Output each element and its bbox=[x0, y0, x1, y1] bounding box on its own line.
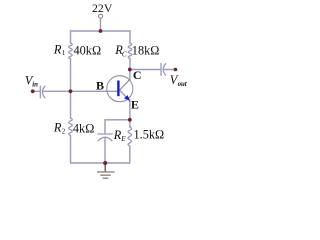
svg-text:18kΩ: 18kΩ bbox=[132, 43, 160, 57]
svg-text:E: E bbox=[131, 97, 139, 111]
svg-text:E: E bbox=[120, 135, 126, 143]
svg-text:R: R bbox=[53, 42, 62, 56]
svg-text:2: 2 bbox=[62, 127, 66, 135]
svg-text:out: out bbox=[178, 81, 188, 88]
svg-text:R: R bbox=[53, 120, 62, 134]
svg-text:4kΩ: 4kΩ bbox=[73, 121, 94, 135]
svg-text:40kΩ: 40kΩ bbox=[74, 43, 102, 57]
svg-text:C: C bbox=[122, 50, 127, 58]
svg-text:B: B bbox=[96, 78, 104, 92]
svg-text:22V: 22V bbox=[92, 1, 113, 15]
svg-text:C: C bbox=[133, 68, 142, 82]
svg-text:1: 1 bbox=[62, 49, 66, 57]
svg-text:1.5kΩ: 1.5kΩ bbox=[134, 127, 165, 141]
svg-text:in: in bbox=[32, 82, 38, 89]
